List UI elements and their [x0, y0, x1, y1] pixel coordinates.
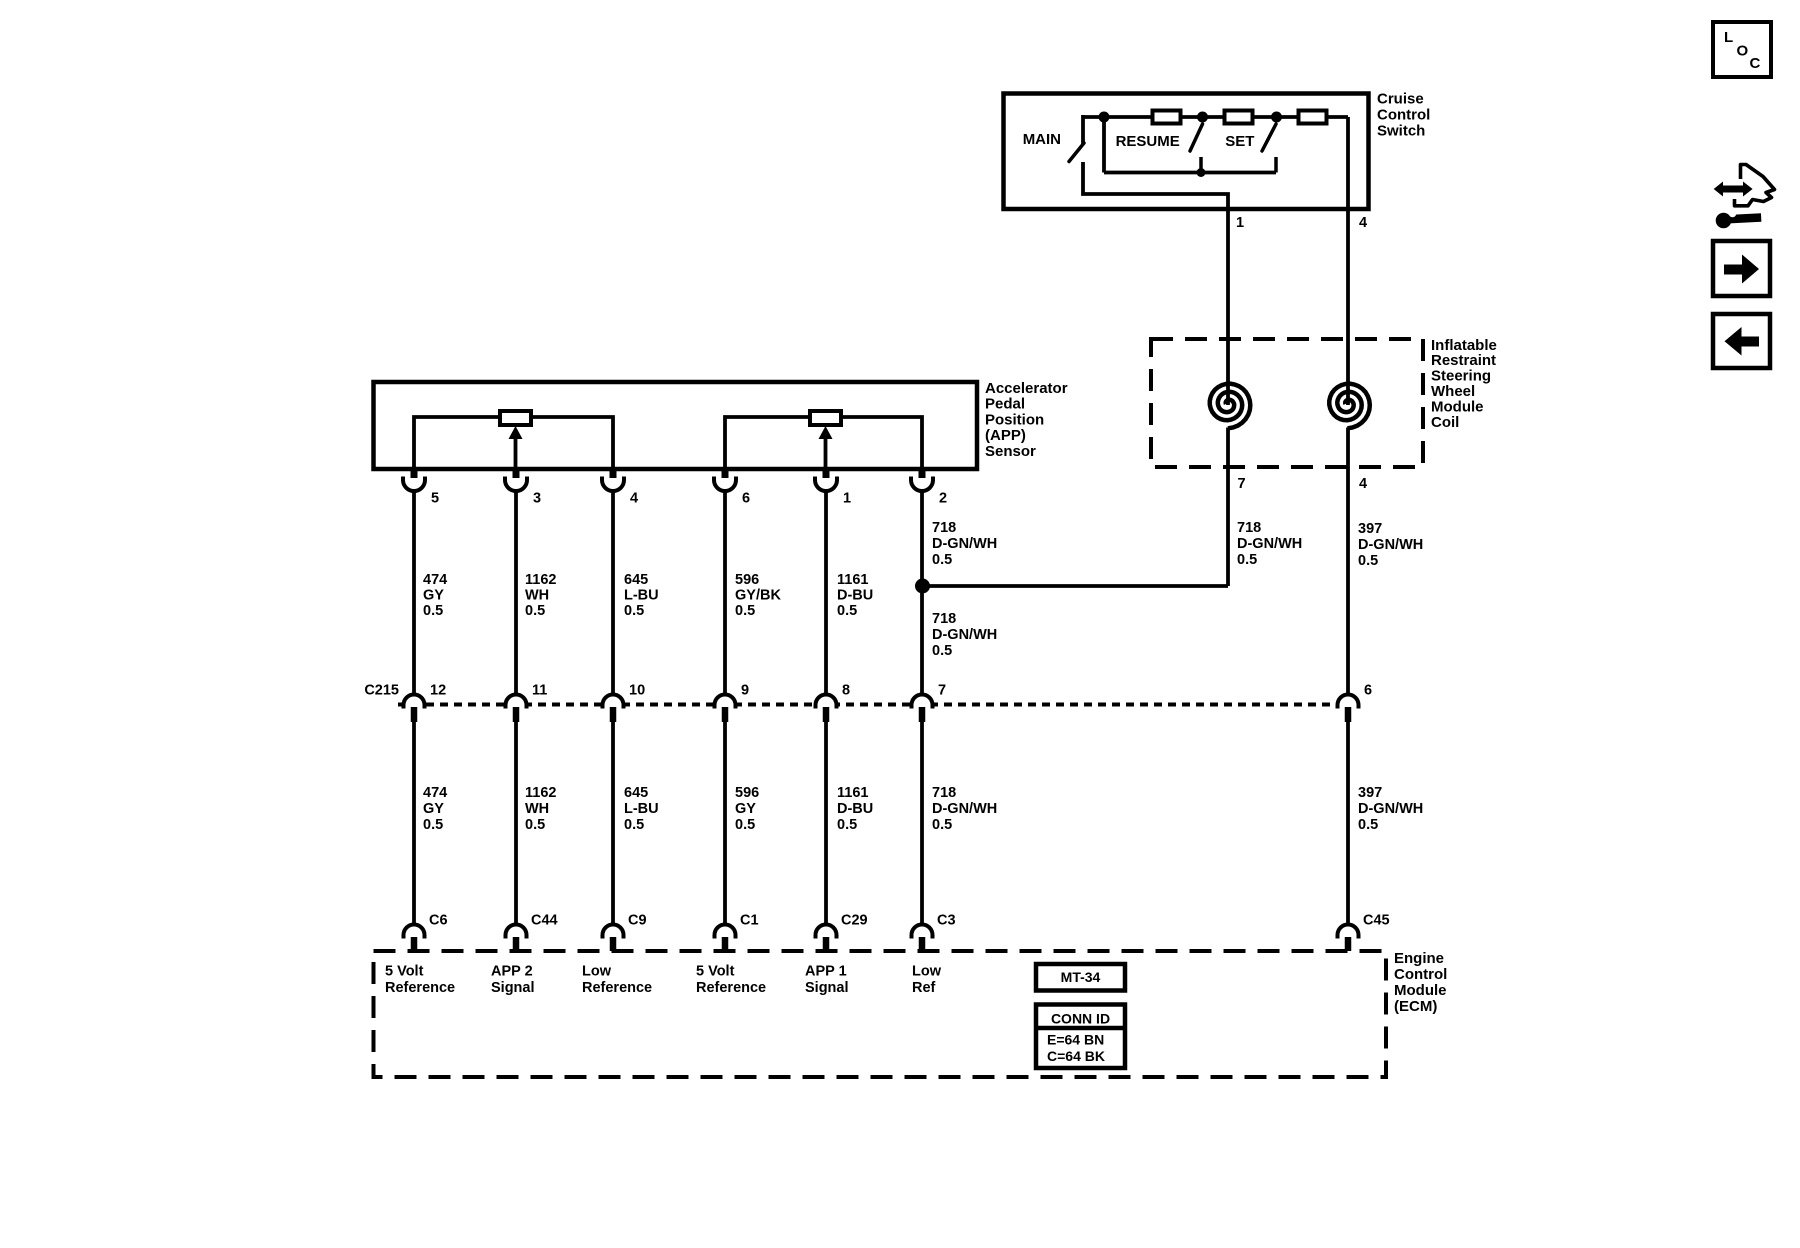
wire APP to C215 — [611, 490, 615, 695]
wire into coil 2 — [1346, 341, 1350, 405]
C215 pin 7 label — [938, 682, 946, 698]
svg-text:0.5: 0.5 — [735, 603, 755, 619]
svg-text:Low: Low — [582, 963, 612, 979]
potentiometer APP1 body wire — [725, 417, 922, 469]
svg-text:Engine: Engine — [1394, 950, 1444, 967]
svg-text:RESUME: RESUME — [1116, 133, 1180, 150]
potentiometer APP2 body wire — [414, 417, 613, 469]
label Engine Control Module (ECM) — [1394, 950, 1447, 1015]
ECM connector C29 — [816, 925, 837, 951]
svg-text:5 Volt: 5 Volt — [385, 963, 424, 979]
C215 pin 11 label — [532, 682, 547, 698]
label C215 — [364, 682, 399, 698]
wire label 718 D-GN/WH 0.5 upper — [932, 520, 997, 568]
C215 pin 12 connector — [404, 695, 425, 722]
svg-text:Control: Control — [1377, 106, 1430, 123]
svg-text:7: 7 — [938, 682, 946, 698]
svg-text:D-GN/WH: D-GN/WH — [1358, 537, 1423, 553]
potentiometer APP2 wiper arrow — [509, 426, 523, 469]
svg-text:718: 718 — [932, 520, 956, 536]
svg-text:0.5: 0.5 — [525, 603, 545, 619]
svg-text:C6: C6 — [429, 912, 448, 928]
C215 pin 12 label — [430, 682, 446, 698]
switch MAIN blade — [1069, 143, 1084, 162]
svg-text:397: 397 — [1358, 521, 1382, 537]
svg-text:GY/BK: GY/BK — [735, 588, 781, 604]
svg-text:0.5: 0.5 — [1358, 817, 1378, 833]
label Accelerator Pedal Position (APP) Sensor — [985, 380, 1068, 460]
svg-text:C: C — [1750, 55, 1761, 72]
APP pin 5 label — [431, 490, 439, 506]
svg-text:1162: 1162 — [525, 785, 556, 801]
svg-text:Pedal: Pedal — [985, 396, 1025, 413]
coil pin 7 label — [1238, 476, 1246, 492]
LOC navigation box — [1713, 22, 1771, 77]
C215 pin 9 label — [741, 682, 749, 698]
wire MAIN pole stub — [1081, 115, 1085, 144]
wire label 474 GY 0.5 lower — [423, 785, 447, 833]
APP pin 3 label — [533, 490, 541, 506]
wire label 397 D-GN/WH 0.5 lower — [1358, 785, 1423, 833]
svg-text:C1: C1 — [740, 912, 759, 928]
svg-text:D-GN/WH: D-GN/WH — [1358, 801, 1423, 817]
wire SET contact stub — [1274, 157, 1278, 173]
wire C215 to ECM — [514, 722, 518, 924]
ECM connector C45 — [1338, 925, 1359, 951]
svg-text:D-GN/WH: D-GN/WH — [1237, 536, 1302, 552]
APP pin 2 connector — [911, 467, 933, 491]
svg-text:0.5: 0.5 — [932, 817, 952, 833]
wire out of coil 2 — [1346, 428, 1350, 468]
svg-text:D-GN/WH: D-GN/WH — [932, 801, 997, 817]
ECM connector C3 — [912, 925, 933, 951]
switch SET blade — [1262, 124, 1276, 151]
ECM connector C1 — [715, 925, 736, 951]
svg-text:397: 397 — [1358, 785, 1382, 801]
svg-text:APP 1: APP 1 — [805, 963, 847, 979]
label 5 Volt Reference (C1) — [696, 963, 766, 996]
wire APP to C215 — [824, 490, 828, 695]
C215 pin 8 connector — [816, 695, 837, 722]
svg-text:2: 2 — [939, 490, 947, 506]
label SET — [1225, 133, 1254, 150]
accelerator pedal position sensor box — [374, 382, 978, 469]
potentiometer APP1 wiper arrow — [819, 426, 833, 469]
wire label 474 GY 0.5 — [423, 572, 447, 619]
label Low Ref (C3) — [912, 963, 942, 996]
ECM connector C29 label — [841, 912, 868, 928]
label APP 2 Signal — [491, 963, 535, 996]
wire label 718 D-GN/WH 0.5 coil — [1237, 520, 1302, 568]
C215 pin 6 connector — [1338, 695, 1359, 722]
pin 4 label — [1359, 215, 1367, 231]
svg-text:Low: Low — [912, 963, 942, 979]
wire label 1162 WH 0.5 lower — [525, 785, 556, 833]
svg-text:9: 9 — [741, 682, 749, 698]
resistor R1 — [1153, 111, 1181, 124]
svg-text:Coil: Coil — [1431, 414, 1459, 431]
coil pin 4 label — [1359, 476, 1367, 492]
svg-text:0.5: 0.5 — [932, 643, 952, 659]
svg-text:D-GN/WH: D-GN/WH — [932, 536, 997, 552]
svg-text:D-BU: D-BU — [837, 801, 873, 817]
wire C215 to ECM — [824, 722, 828, 924]
wire APP to C215 — [412, 490, 416, 695]
svg-text:L-BU: L-BU — [624, 801, 659, 817]
svg-text:6: 6 — [742, 490, 750, 506]
wire 718 from coil pin7 down to junction — [1226, 467, 1230, 586]
wire label 718 D-GN/WH 0.5 lower — [932, 785, 997, 833]
svg-text:4: 4 — [1359, 215, 1367, 231]
APP pin 6 label — [742, 490, 750, 506]
wire label 1161 D-BU 0.5 — [837, 572, 873, 619]
label APP 1 Signal — [805, 963, 849, 996]
ECM connector C1 label — [740, 912, 759, 928]
svg-text:718: 718 — [1237, 520, 1261, 536]
svg-text:Signal: Signal — [491, 980, 535, 996]
svg-text:L-BU: L-BU — [624, 588, 659, 604]
CONN ID box — [1036, 1005, 1125, 1069]
cruise control switch box — [1004, 94, 1369, 210]
wire C215 to ECM — [723, 722, 727, 924]
wire label 718 D-GN/WH 0.5 below junction — [932, 611, 997, 659]
svg-text:C29: C29 — [841, 912, 868, 928]
wire C215 to ECM — [412, 722, 416, 924]
label 5 Volt Reference (C6) — [385, 963, 455, 996]
svg-text:596: 596 — [735, 572, 759, 588]
label Inflatable Restraint Steering Wheel Module Coil — [1431, 337, 1497, 431]
coil spiral left — [1210, 384, 1251, 429]
svg-text:0.5: 0.5 — [735, 817, 755, 833]
svg-text:12: 12 — [430, 682, 446, 698]
svg-text:Reference: Reference — [696, 980, 766, 996]
node junction 718 — [915, 579, 930, 594]
svg-text:4: 4 — [630, 490, 638, 506]
coil spiral right — [1329, 384, 1370, 429]
wire label 397 D-GN/WH 0.5 upper — [1358, 521, 1423, 569]
svg-text:11: 11 — [532, 682, 547, 698]
svg-text:D-BU: D-BU — [837, 588, 873, 604]
svg-text:Cruise: Cruise — [1377, 90, 1424, 107]
svg-text:7: 7 — [1238, 476, 1246, 492]
svg-text:L: L — [1724, 29, 1733, 46]
wire pin4 cruise to coil — [1346, 210, 1350, 341]
wire to pin 4 — [1346, 117, 1350, 210]
wire label 645 L-BU 0.5 — [624, 572, 659, 619]
wire label 1162 WH 0.5 — [525, 572, 556, 619]
ECM connector C6 — [404, 925, 425, 951]
svg-text:Ref: Ref — [912, 980, 936, 996]
ECM connector C6 label — [429, 912, 448, 928]
APP pin 1 connector — [815, 467, 837, 491]
svg-text:0.5: 0.5 — [932, 552, 952, 568]
svg-text:D-GN/WH: D-GN/WH — [932, 627, 997, 643]
wire into coil 1 — [1226, 341, 1230, 405]
node junction below MAIN — [1099, 112, 1110, 123]
svg-text:0.5: 0.5 — [423, 817, 443, 833]
svg-text:1161: 1161 — [837, 572, 868, 588]
inflatable restraint steering wheel module coil box (dashed) — [1151, 339, 1423, 467]
node RESUME contact on return bus — [1197, 168, 1206, 177]
svg-text:(APP): (APP) — [985, 427, 1026, 444]
potentiometer APP1 resistor — [810, 411, 841, 425]
svg-text:C9: C9 — [628, 912, 647, 928]
svg-text:718: 718 — [932, 785, 956, 801]
svg-text:SET: SET — [1225, 133, 1254, 150]
node SET junction — [1271, 112, 1282, 123]
wire label 1161 D-BU 0.5 lower — [837, 785, 873, 833]
svg-text:474: 474 — [423, 572, 447, 588]
potentiometer APP2 resistor — [500, 411, 531, 425]
svg-text:5: 5 — [431, 490, 439, 506]
back arrow box — [1713, 314, 1770, 368]
svg-text:C3: C3 — [937, 912, 956, 928]
switch RESUME blade — [1190, 124, 1203, 151]
APP pin 4 connector — [602, 467, 624, 491]
svg-text:0.5: 0.5 — [837, 817, 857, 833]
wire label 596 GY 0.5 lower — [735, 785, 759, 833]
APP pin 6 connector — [714, 467, 736, 491]
forward arrow box — [1713, 241, 1770, 296]
svg-text:Position: Position — [985, 411, 1044, 428]
APP pin 5 connector — [403, 467, 425, 491]
svg-text:WH: WH — [525, 801, 549, 817]
wire APP to C215 — [920, 490, 924, 695]
ECM connector C9 label — [628, 912, 647, 928]
pin 1 label — [1236, 215, 1244, 231]
svg-text:4: 4 — [1359, 476, 1367, 492]
C215 pin 8 label — [842, 682, 850, 698]
label Cruise Control Switch — [1377, 90, 1430, 139]
label RESUME — [1116, 133, 1180, 150]
MT-34 reference box — [1036, 964, 1125, 991]
wire C215 to ECM — [611, 722, 615, 924]
ECM connector C45 label — [1363, 912, 1390, 928]
ECM connector C3 label — [937, 912, 956, 928]
svg-text:C215: C215 — [364, 682, 399, 698]
wire APP to C215 — [723, 490, 727, 695]
svg-text:Switch: Switch — [1377, 122, 1425, 139]
vehicle data / wrench icon — [1714, 165, 1775, 229]
resistor R2 — [1225, 111, 1253, 124]
wire APP to C215 — [514, 490, 518, 695]
svg-text:O: O — [1737, 43, 1749, 60]
svg-text:8: 8 — [842, 682, 850, 698]
svg-text:0.5: 0.5 — [624, 603, 644, 619]
svg-text:E=64 BN: E=64 BN — [1047, 1032, 1104, 1048]
C215 pin 10 label — [629, 682, 645, 698]
wire return bus — [1104, 171, 1276, 175]
svg-text:0.5: 0.5 — [525, 817, 545, 833]
wire RESUME contact stub — [1199, 157, 1203, 173]
svg-text:474: 474 — [423, 785, 447, 801]
svg-text:6: 6 — [1364, 682, 1372, 698]
svg-text:C=64 BK: C=64 BK — [1047, 1048, 1105, 1064]
svg-text:596: 596 — [735, 785, 759, 801]
svg-text:0.5: 0.5 — [1237, 552, 1257, 568]
svg-text:645: 645 — [624, 785, 648, 801]
svg-text:GY: GY — [423, 588, 444, 604]
svg-text:MT-34: MT-34 — [1061, 969, 1101, 985]
connector C215 dashed line — [398, 703, 1356, 707]
svg-text:C44: C44 — [531, 912, 558, 928]
svg-text:645: 645 — [624, 572, 648, 588]
svg-text:1: 1 — [843, 490, 851, 506]
APP pin 2 label — [939, 490, 947, 506]
APP pin 3 connector — [505, 467, 527, 491]
engine control module box (dashed) — [374, 951, 1387, 1077]
C215 pin 9 connector — [715, 695, 736, 722]
svg-text:5 Volt: 5 Volt — [696, 963, 735, 979]
svg-text:10: 10 — [629, 682, 645, 698]
C215 pin 6 label — [1364, 682, 1372, 698]
svg-text:GY: GY — [423, 801, 444, 817]
svg-text:Module: Module — [1394, 982, 1447, 999]
resistor R3 — [1299, 111, 1327, 124]
C215 pin 7 connector — [912, 695, 933, 722]
svg-text:Accelerator: Accelerator — [985, 380, 1068, 397]
svg-text:C45: C45 — [1363, 912, 1390, 928]
node RESUME junction — [1197, 112, 1208, 123]
wire node to return bus — [1102, 117, 1106, 173]
svg-text:718: 718 — [932, 611, 956, 627]
svg-text:(ECM): (ECM) — [1394, 998, 1437, 1015]
svg-text:0.5: 0.5 — [1358, 553, 1378, 569]
wire C215 to ECM — [1346, 722, 1350, 924]
svg-text:APP 2: APP 2 — [491, 963, 533, 979]
svg-text:WH: WH — [525, 588, 549, 604]
wire C215 to ECM — [920, 722, 924, 924]
APP pin 4 label — [630, 490, 638, 506]
svg-text:CONN ID: CONN ID — [1051, 1011, 1110, 1027]
C215 pin 11 connector — [506, 695, 527, 722]
wire label 596 GY/BK 0.5 — [735, 572, 781, 619]
svg-text:0.5: 0.5 — [423, 603, 443, 619]
wire out of coil 1 — [1226, 428, 1230, 468]
svg-text:Sensor: Sensor — [985, 443, 1036, 460]
svg-text:Reference: Reference — [582, 980, 652, 996]
APP pin 1 label — [843, 490, 851, 506]
ECM connector C9 — [603, 925, 624, 951]
svg-text:1161: 1161 — [837, 785, 868, 801]
svg-text:0.5: 0.5 — [624, 817, 644, 833]
svg-text:Control: Control — [1394, 966, 1447, 983]
ECM connector C44 — [506, 925, 527, 951]
svg-text:1: 1 — [1236, 215, 1244, 231]
svg-text:1162: 1162 — [525, 572, 556, 588]
wire horizontal 718 to APP pin2 wire — [921, 584, 1228, 588]
svg-text:0.5: 0.5 — [837, 603, 857, 619]
wire MAIN contact to pin 1 — [1083, 162, 1228, 210]
wire 397 from coil pin4 down to C215 — [1346, 467, 1350, 695]
label MAIN — [1023, 131, 1061, 148]
wire pin1 cruise to coil — [1226, 210, 1230, 341]
svg-text:Signal: Signal — [805, 980, 849, 996]
wire internal bus — [1083, 115, 1348, 119]
svg-text:3: 3 — [533, 490, 541, 506]
ECM connector C44 label — [531, 912, 558, 928]
wire label 645 L-BU 0.5 lower — [624, 785, 659, 833]
label Low Reference (C9) — [582, 963, 652, 996]
svg-text:Reference: Reference — [385, 980, 455, 996]
svg-text:GY: GY — [735, 801, 756, 817]
svg-text:MAIN: MAIN — [1023, 131, 1061, 148]
C215 pin 10 connector — [603, 695, 624, 722]
